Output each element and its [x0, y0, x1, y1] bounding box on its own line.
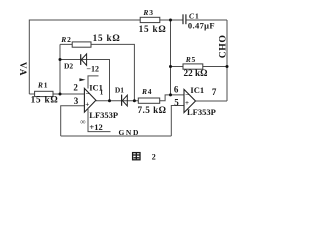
op-amp U1A labels: [80, 83, 118, 127]
svg-text:+: +: [85, 101, 89, 109]
svg-text:R: R: [141, 87, 147, 96]
node R5 left: [169, 65, 172, 68]
resistor R1: [31, 80, 59, 104]
svg-text:1: 1: [195, 12, 199, 21]
svg-text:−: −: [185, 91, 189, 99]
diode D2: [64, 54, 87, 71]
node D2 drop on output: [108, 99, 111, 102]
wire ground bottom: [61, 135, 172, 137]
svg-text:6: 6: [174, 84, 179, 94]
wire pin6 vertical from top net: [170, 20, 172, 95]
diode D1: [115, 86, 127, 106]
svg-text:0.47μF: 0.47μF: [188, 21, 215, 31]
svg-text:4: 4: [148, 87, 152, 96]
wire pin3 to ground: [61, 106, 85, 136]
resistor R5: [183, 55, 207, 78]
power -12 stub: [79, 65, 99, 89]
wire op-amp1 output: [96, 100, 138, 102]
svg-text:D1: D1: [115, 86, 124, 95]
capacitor C1: [183, 12, 215, 31]
resistor R2: [60, 33, 120, 47]
node R2/D2/pin2 junction: [59, 93, 62, 96]
svg-text:1: 1: [44, 80, 48, 89]
wire op-amp2 output: [196, 100, 228, 102]
svg-text:7: 7: [212, 87, 217, 97]
node R2 drop on output: [133, 99, 136, 102]
resistor R4: [138, 87, 167, 115]
svg-text:2: 2: [73, 83, 78, 93]
svg-text:LF353P: LF353P: [187, 107, 216, 117]
svg-text:2: 2: [67, 35, 71, 44]
svg-text:1: 1: [100, 89, 104, 97]
caption figure 2: [133, 153, 156, 162]
wire R4 to pin6 step: [160, 95, 184, 101]
svg-text:15 kΩ: 15 kΩ: [139, 24, 167, 34]
node top rail tap: [169, 19, 172, 22]
svg-text:22 kΩ: 22 kΩ: [184, 68, 208, 78]
op-amp U1A triangle: [84, 88, 96, 112]
node pin6: [169, 93, 172, 96]
svg-text:3: 3: [74, 96, 79, 106]
node R5 right: [226, 65, 229, 68]
op-amp U1B triangle: [184, 89, 196, 112]
svg-text:IC1: IC1: [190, 85, 204, 95]
wire feedback vertical x60: [59, 44, 61, 94]
svg-text:R: R: [142, 8, 148, 17]
svg-text:5: 5: [192, 55, 196, 64]
svg-text:R: R: [37, 80, 43, 89]
wire top feedback rail: [29, 20, 183, 94]
svg-text:3: 3: [149, 8, 153, 17]
svg-text:15 kΩ: 15 kΩ: [31, 95, 59, 105]
wire R5 branch: [171, 66, 228, 68]
svg-text:D2: D2: [64, 62, 73, 71]
svg-text:∞: ∞: [80, 117, 86, 126]
node D2 tap: [59, 58, 62, 61]
svg-text:7.5 kΩ: 7.5 kΩ: [138, 105, 167, 115]
svg-text:CHO: CHO: [218, 35, 229, 59]
svg-text:R: R: [60, 35, 66, 44]
wire D2 branch: [60, 60, 110, 101]
wire R2 branch: [60, 44, 134, 100]
svg-text:2: 2: [152, 153, 156, 162]
svg-text:15 kΩ: 15 kΩ: [93, 33, 121, 43]
svg-text:GND: GND: [119, 128, 140, 137]
svg-text:R: R: [185, 55, 191, 64]
svg-text:+: +: [185, 99, 189, 107]
svg-text:5: 5: [174, 97, 179, 107]
wire top right of C1: [186, 19, 227, 21]
op-amp U1B labels: [187, 85, 216, 117]
svg-text:+12: +12: [89, 122, 102, 132]
resistor R3: [139, 8, 167, 34]
wire pin5 to ground: [171, 106, 184, 137]
svg-text:LF353P: LF353P: [89, 110, 118, 120]
wire right vertical output net: [226, 20, 228, 101]
power +12 stub: [88, 108, 111, 132]
wire R1 input: [29, 93, 84, 95]
svg-text:VA: VA: [17, 62, 27, 77]
svg-text:−12: −12: [86, 65, 99, 74]
